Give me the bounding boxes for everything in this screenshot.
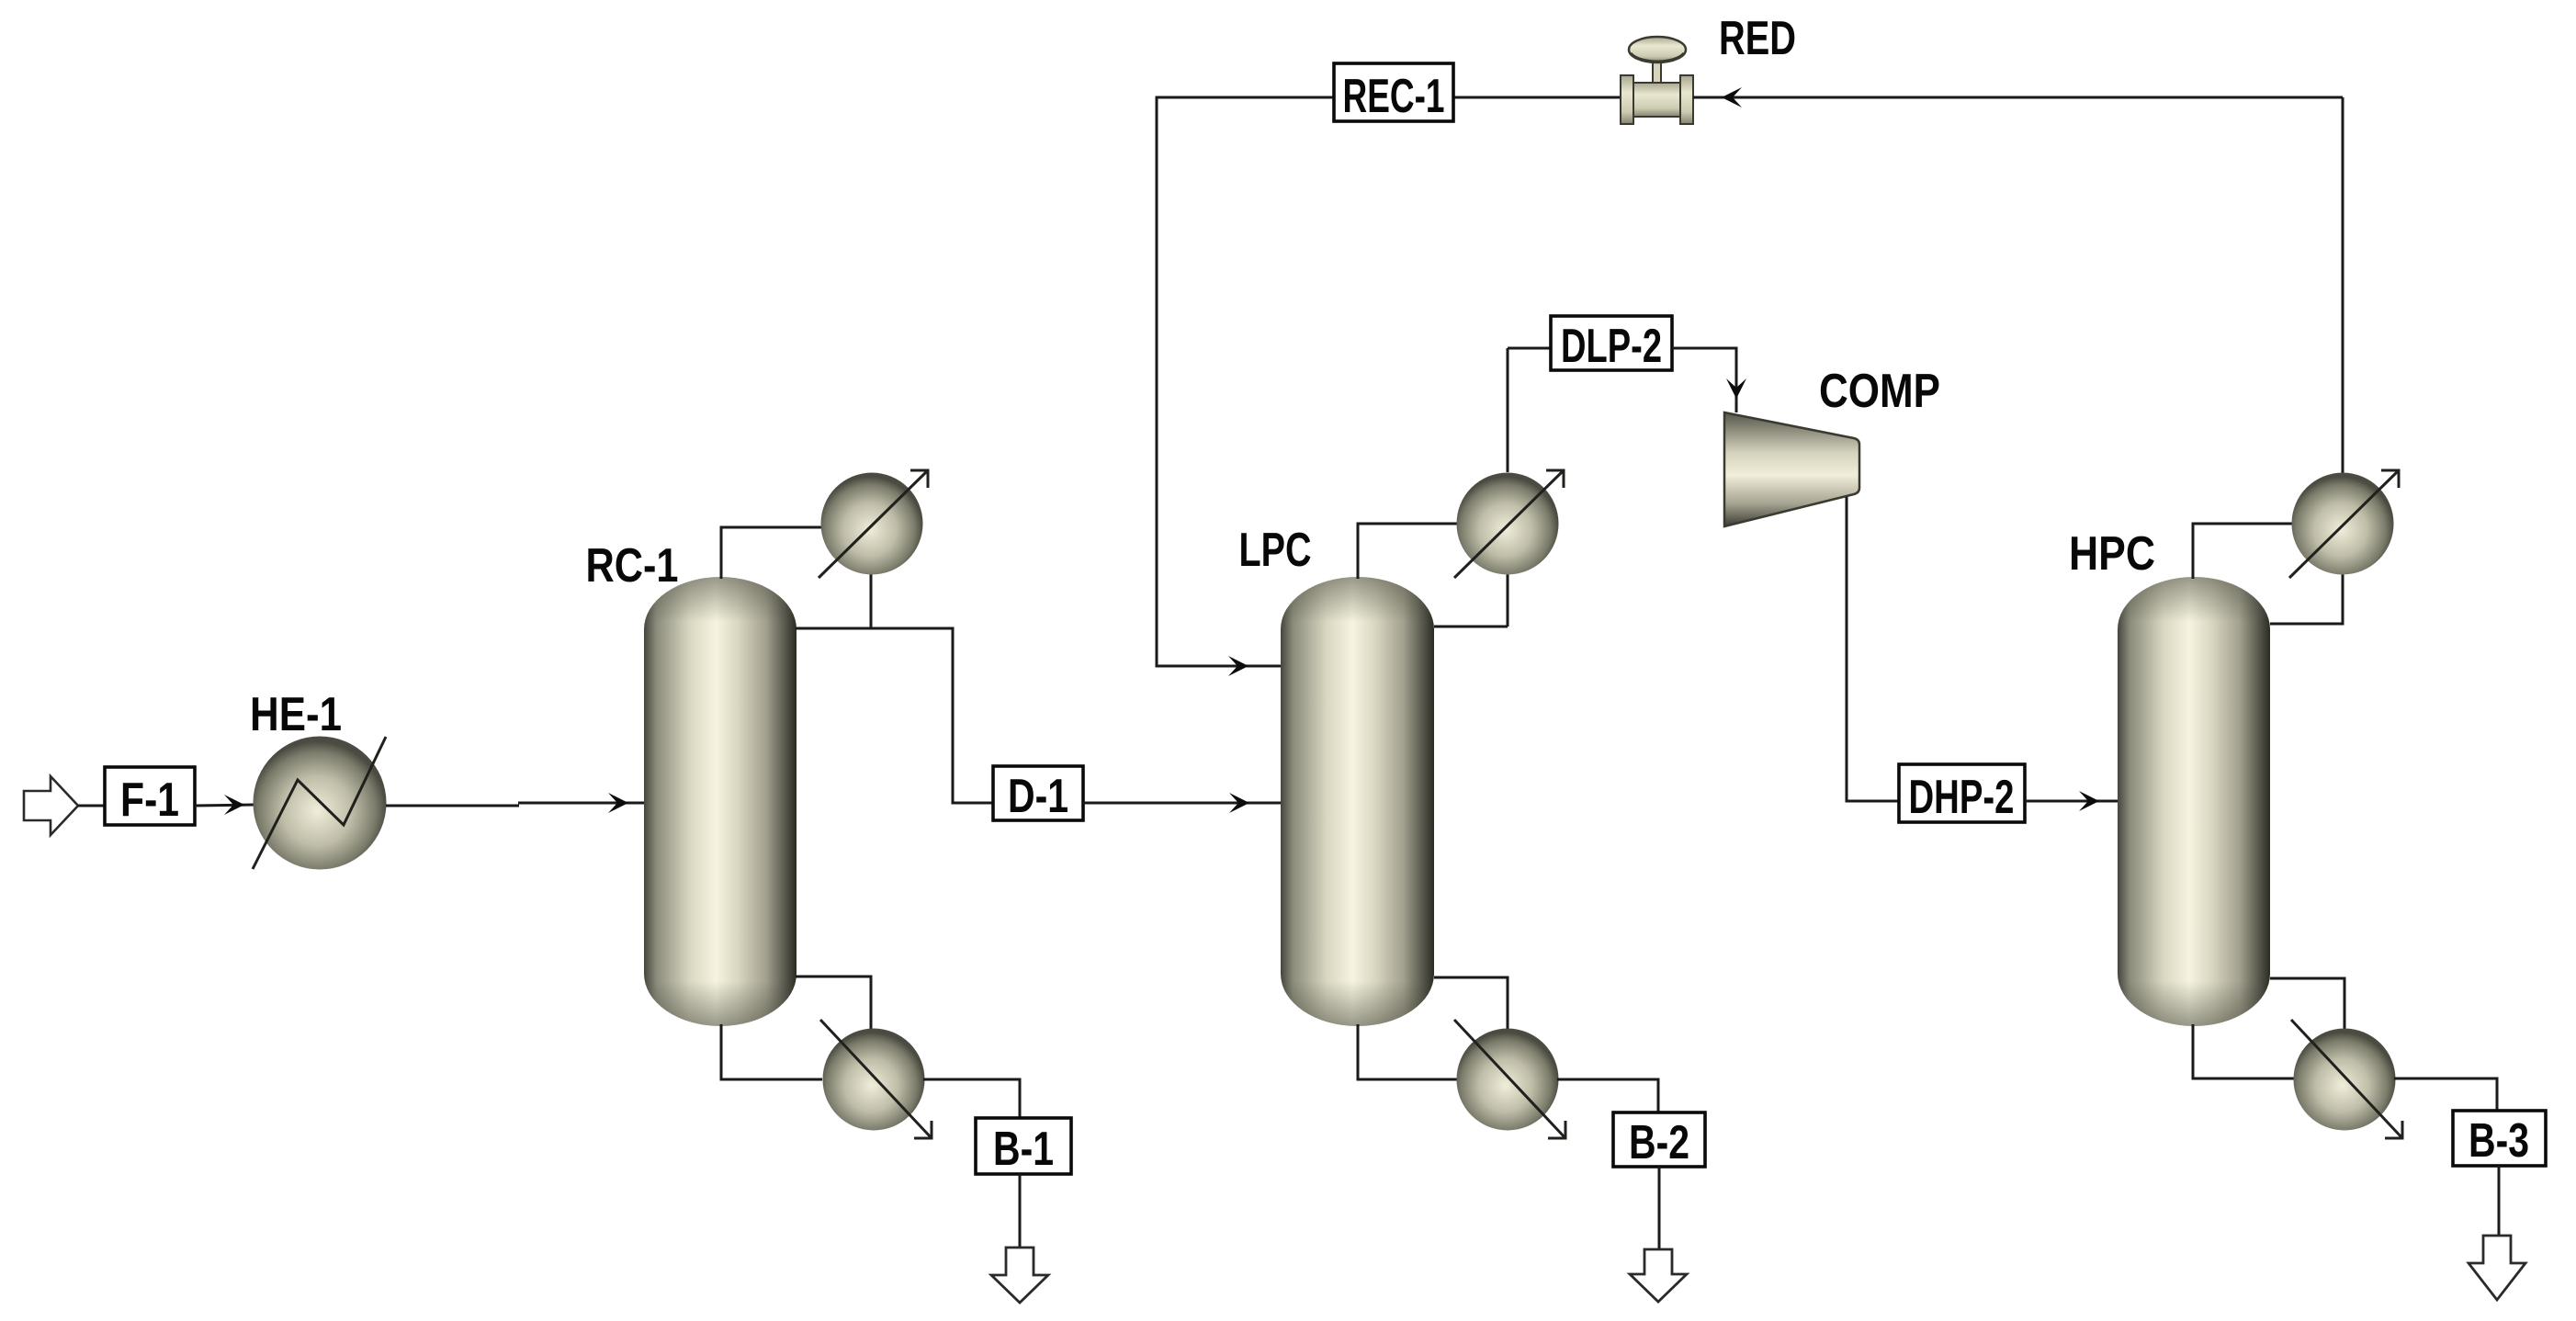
wire HE-1 to RC-1 <box>386 793 644 813</box>
svg-text:HE-1: HE-1 <box>250 688 342 741</box>
wire B-2 to outlet <box>1658 1167 1661 1249</box>
reboiler of RC-1 <box>820 1020 932 1138</box>
svg-text:B-3: B-3 <box>2469 1114 2529 1168</box>
stream label D-1 <box>993 766 1083 823</box>
stream label DHP-2 <box>1899 764 2025 824</box>
wire HPC reboiler return <box>2270 978 2344 1031</box>
stream label REC-1 <box>1334 63 1453 123</box>
svg-text:COMP: COMP <box>1819 365 1940 418</box>
wire D-1 to LPC <box>1083 793 1281 813</box>
svg-text:B-1: B-1 <box>993 1123 1054 1176</box>
wire RC-1 reboiler return <box>796 977 871 1031</box>
reboiler of HPC <box>2291 1020 2402 1138</box>
svg-text:RED: RED <box>1719 12 1796 65</box>
wire B-1 to outlet <box>1019 1174 1022 1248</box>
valve RED <box>1621 37 1693 124</box>
svg-text:F-1: F-1 <box>120 773 179 827</box>
wire LPC condensate and distillate riser <box>1434 348 1508 627</box>
wire RC-1 distillate shoulder <box>796 628 993 803</box>
wire HPC vapor to condenser <box>2193 524 2292 579</box>
stream label B-1 <box>976 1118 1071 1176</box>
wire LPC bottoms to reboiler <box>1358 1024 1458 1079</box>
condenser of HPC <box>2289 470 2399 578</box>
condenser of RC-1 <box>819 470 928 578</box>
bottoms outlet hollow arrow B-2 <box>1630 1249 1687 1302</box>
heat exchanger HE-1 <box>253 737 387 870</box>
wire recycle REC-1 (top run and drop to LPC) <box>1157 97 1622 676</box>
svg-text:DLP-2: DLP-2 <box>1561 320 1662 373</box>
svg-text:D-1: D-1 <box>1008 770 1068 823</box>
svg-text:HPC: HPC <box>2069 527 2155 581</box>
wire LPC vapor to condenser <box>1358 524 1458 579</box>
wire reboiler to B-3 <box>2394 1078 2497 1111</box>
wire feed to F-1 <box>78 805 105 807</box>
column LPC <box>1281 577 1434 1026</box>
condenser of LPC <box>1454 470 1564 578</box>
wire HPC distillate to RED valve <box>1693 87 2343 474</box>
wire DHP-2 to HPC <box>2025 791 2118 811</box>
wire RC-1 vapor to condenser <box>721 527 822 579</box>
svg-text:B-2: B-2 <box>1629 1116 1689 1169</box>
column RC-1 <box>644 577 797 1026</box>
bottoms outlet hollow arrow B-1 <box>991 1248 1048 1303</box>
stream label B-3 <box>2453 1111 2546 1168</box>
svg-text:RC-1: RC-1 <box>586 539 679 593</box>
wire DLP-2 to COMP <box>1672 348 1746 412</box>
svg-text:DHP-2: DHP-2 <box>1909 771 2015 824</box>
column HPC <box>2118 577 2270 1026</box>
wire RC-1 condensate down <box>870 571 873 628</box>
stream label F-1 <box>105 767 195 827</box>
wire HPC condensate return <box>2270 571 2343 624</box>
svg-text:LPC: LPC <box>1239 524 1312 577</box>
wire LPC reboiler return <box>1434 977 1508 1031</box>
wire HPC bottoms to reboiler <box>2193 1024 2294 1078</box>
wire reboiler to B-2 <box>1557 1079 1658 1112</box>
wire reboiler to B-1 <box>923 1079 1020 1118</box>
stream label B-2 <box>1613 1112 1705 1169</box>
stream label DLP-2 <box>1551 316 1672 373</box>
wire B-3 to outlet <box>2498 1166 2501 1236</box>
feed inlet hollow arrow <box>24 776 78 835</box>
wire to DLP-2 <box>1508 347 1551 350</box>
reboiler of LPC <box>1454 1020 1565 1138</box>
bottoms outlet hollow arrow B-3 <box>2469 1236 2525 1300</box>
wire COMP to DHP-2 <box>1847 497 1899 801</box>
compressor COMP <box>1724 412 1859 526</box>
wire F-1 to HE-1 <box>195 795 254 815</box>
svg-text:REC-1: REC-1 <box>1343 70 1445 123</box>
wire RC-1 bottoms to reboiler <box>721 1024 822 1079</box>
